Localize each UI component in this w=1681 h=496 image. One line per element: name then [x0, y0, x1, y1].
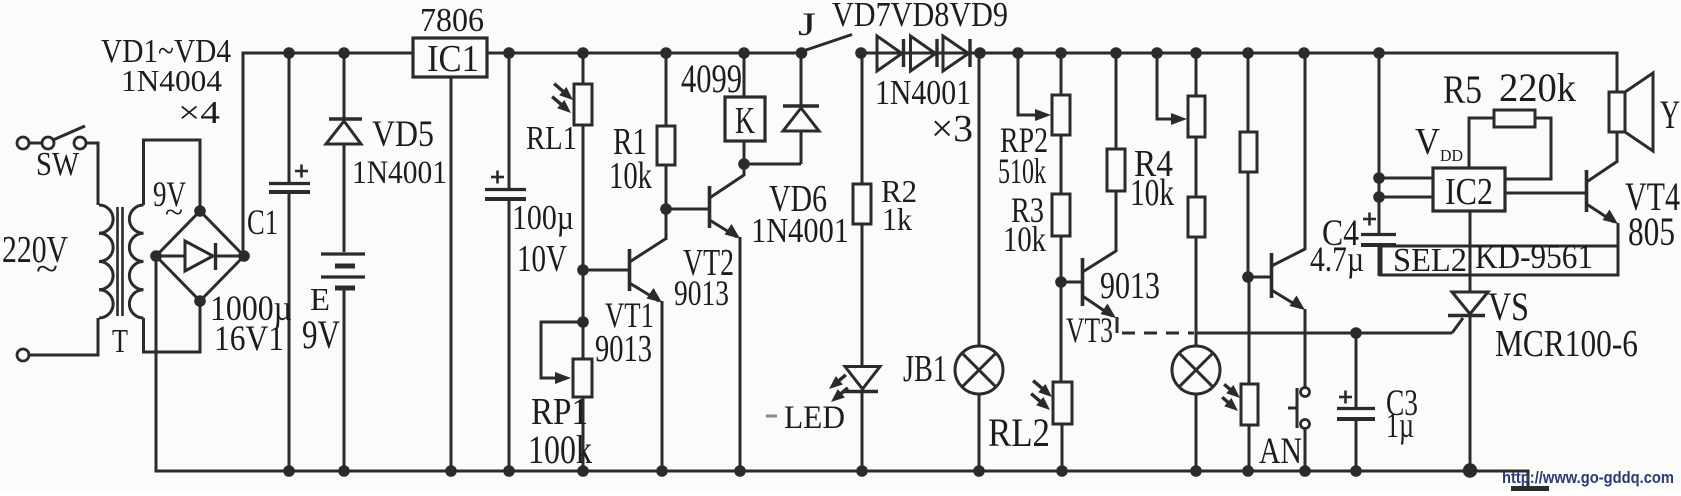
label 220V tilde: [36, 251, 58, 288]
svg-text:10k: 10k: [1003, 219, 1046, 259]
junction res3 top rail: [1242, 47, 1254, 59]
label C1: [247, 202, 278, 242]
watermark: [1502, 468, 1674, 487]
svg-text:510k: 510k: [998, 151, 1046, 191]
label R4 10k: [1130, 172, 1174, 214]
label 1k: [882, 201, 912, 237]
wire VDD drop: [1378, 53, 1381, 233]
wire C3 bottom: [1355, 419, 1358, 471]
wire R1 top: [665, 53, 668, 126]
wire RG2 bottom: [1248, 425, 1251, 471]
wire C1 top: [288, 53, 291, 182]
label VD1~VD4: [101, 33, 231, 70]
label VT4: [1625, 174, 1680, 219]
svg-text:RL2: RL2: [988, 410, 1050, 455]
junction R4 top rail: [1110, 47, 1122, 59]
thyristor VS: [1448, 292, 1488, 471]
C3 plus: [1339, 391, 1352, 404]
RL1 light arrows: [552, 84, 573, 113]
label VD6 1N4001: [751, 211, 849, 250]
transformer T primary winding: [99, 205, 113, 318]
wire K bottom to node: [743, 141, 746, 164]
switch SW lever: [53, 126, 85, 140]
label LED dash: [766, 415, 777, 418]
svg-text:~: ~: [165, 196, 183, 229]
junction cap100u top rail: [503, 47, 515, 59]
wire VT2 base: [666, 208, 709, 211]
wire R1 bottom: [665, 165, 668, 209]
capacitor 100u: [485, 190, 526, 200]
wire VT3 base node to RL2: [1060, 282, 1063, 382]
diode VD6: [783, 106, 819, 131]
top rail right segment: [861, 52, 1617, 55]
speaker Y cone: [1625, 73, 1653, 151]
label VS: [1488, 284, 1529, 329]
wire res2 to lamp2: [1195, 237, 1198, 346]
bridge node left: [150, 250, 162, 262]
label RL1: [526, 120, 577, 157]
cap 100u plus: [491, 171, 504, 184]
junction K top rail: [738, 47, 750, 59]
LED light arrows: [829, 375, 848, 402]
label 9V secondary: [153, 174, 186, 214]
junction VD9 out rail: [974, 47, 986, 59]
label SW: [36, 146, 80, 183]
photoresistor RL1: [574, 84, 592, 125]
switch SW terminal 2: [42, 137, 54, 149]
label T: [112, 323, 128, 360]
wire IC2 pin2: [1379, 196, 1433, 199]
bridge inner diode: [160, 241, 242, 271]
wire VD5 top: [343, 53, 346, 119]
label KD-9561: [1475, 237, 1593, 276]
junction AN bottom rail: [1299, 465, 1311, 477]
junction VDD rail: [1373, 47, 1385, 59]
switch SW terminal 1: [17, 137, 29, 149]
label SEL2: [1393, 242, 1467, 279]
label RP1: [531, 391, 588, 433]
potentiometer RP1: [573, 359, 592, 397]
junction C3 bottom rail: [1350, 465, 1362, 477]
diodes VD7 VD8 VD9: [877, 36, 970, 71]
relay K box: [725, 97, 765, 141]
svg-text:220k: 220k: [1499, 65, 1576, 110]
transistor VT3: [1083, 191, 1118, 333]
svg-text:×4: ×4: [178, 94, 220, 130]
transformer T secondary winding: [129, 205, 143, 318]
label 805: [1628, 209, 1675, 254]
wire VT1 base: [583, 269, 628, 272]
svg-text:9V: 9V: [302, 312, 340, 357]
label 100u: [512, 198, 574, 237]
photoresistor RL2: [1053, 382, 1072, 424]
wire VD5 to battery: [343, 144, 346, 252]
label LED: [784, 400, 845, 436]
bottom rail: [155, 470, 1529, 473]
photoresistor RG2: [1241, 384, 1258, 425]
svg-text:Y: Y: [1660, 92, 1680, 137]
junction pot2 top rail: [1190, 47, 1202, 59]
wire mains bottom to primary: [29, 318, 98, 355]
label R4: [1134, 143, 1173, 185]
label VDD V: [1415, 121, 1440, 163]
wire C4 bottom: [1378, 245, 1381, 276]
svg-text:T: T: [112, 323, 128, 360]
transistor VT1: [630, 209, 667, 471]
label R3 10k: [1003, 219, 1046, 259]
wire pot2 to res2: [1195, 137, 1198, 197]
wire cap 100u top: [508, 53, 511, 188]
wire RL2 bottom: [1061, 424, 1064, 471]
svg-text:VD7VD8VD9: VD7VD8VD9: [832, 0, 1008, 34]
svg-text:R5: R5: [1443, 67, 1482, 112]
svg-text:RL1: RL1: [526, 120, 577, 157]
wire RP1 bottom: [582, 397, 585, 471]
wire cap 100u bottom: [508, 199, 511, 471]
junction RL2 bottom rail: [1056, 465, 1068, 477]
label 220V: [2, 229, 68, 271]
wire res3 to base node: [1247, 172, 1250, 277]
svg-text:10k: 10k: [609, 155, 652, 197]
svg-text:DD: DD: [1440, 146, 1463, 165]
label J: [798, 7, 816, 43]
junction R1 top rail: [660, 47, 672, 59]
RL2 light arrows: [1031, 381, 1052, 410]
capacitor C1: [269, 184, 310, 193]
svg-text:1N4001: 1N4001: [875, 73, 971, 112]
label VT3: [1066, 310, 1113, 350]
potentiometer pot2: [1188, 96, 1205, 137]
C4 plus: [1363, 213, 1376, 226]
label IC2: [1445, 171, 1493, 213]
label VT1 9013: [595, 328, 652, 370]
label R5: [1443, 67, 1482, 112]
junction R1-VT1-VT2 node: [660, 203, 672, 215]
resistor R1: [657, 126, 675, 165]
capacitor C4: [1361, 235, 1396, 246]
wire LED bottom: [861, 391, 864, 471]
svg-text:JB1: JB1: [903, 348, 947, 390]
svg-text:SW: SW: [36, 146, 80, 183]
potentiometer RP2: [1052, 95, 1070, 135]
wire VT3 base: [1061, 281, 1082, 284]
label VT1: [605, 295, 654, 335]
module box SEL2 KD-9561: [1381, 246, 1618, 275]
svg-text:10k: 10k: [1130, 172, 1174, 214]
bridge node top: [194, 205, 206, 217]
junction battery bottom rail: [338, 465, 350, 477]
label C4 4.7u: [1310, 239, 1364, 279]
svg-text:100k: 100k: [528, 427, 592, 472]
transistor driver: [1272, 53, 1306, 388]
label 220k: [1499, 65, 1576, 110]
battery E: [321, 254, 365, 288]
label R3: [1011, 190, 1044, 230]
label 100k: [528, 427, 592, 472]
wire res3 top: [1247, 53, 1250, 132]
wire VD6 top: [800, 53, 803, 106]
push button AN: [1288, 388, 1310, 429]
svg-text:SEL2: SEL2: [1393, 242, 1467, 279]
wire JB1 top: [978, 53, 981, 346]
diode VD5: [326, 119, 362, 144]
svg-text:C1: C1: [247, 202, 278, 242]
junction VT3 base node: [1055, 276, 1067, 288]
RP1 wiper: [541, 322, 583, 384]
junction cap100u bottom rail: [503, 465, 515, 477]
wire mains top from switch: [29, 142, 42, 145]
svg-text:KD-9561: KD-9561: [1475, 237, 1593, 276]
junction C1 top rail: [283, 47, 295, 59]
svg-text:VT3: VT3: [1066, 310, 1113, 350]
label VD5 1N4001: [352, 155, 447, 191]
bridge node right: [238, 250, 250, 262]
ground stub: [1527, 470, 1530, 489]
ground symbol: [1511, 486, 1549, 491]
wire node to VD6: [744, 163, 801, 166]
svg-text:IC1: IC1: [427, 38, 479, 80]
wire driver base: [1248, 276, 1271, 279]
wire K top: [743, 53, 746, 97]
wire AN bottom: [1304, 428, 1307, 471]
switch J lever: [806, 35, 852, 51]
speaker Y driver: [1609, 92, 1625, 132]
wire speaker top: [1616, 52, 1619, 93]
label K: [735, 100, 755, 142]
junction C1 bottom rail: [283, 465, 295, 477]
wire battery bottom: [343, 288, 346, 471]
LED diode: [843, 367, 880, 392]
R5 left lead: [1469, 118, 1494, 168]
label x3: [931, 108, 973, 150]
C1 plus: [295, 165, 308, 178]
label 7806: [420, 2, 484, 39]
wire R4 top: [1115, 53, 1118, 149]
label C3 1u: [1386, 405, 1414, 445]
svg-text:4.7µ: 4.7µ: [1310, 239, 1364, 279]
label 9V tilde: [165, 196, 183, 229]
dashed link VT3 emitter to lamp branch: [1122, 332, 1194, 335]
capacitor C3: [1337, 409, 1375, 420]
wire RP2 top: [1060, 53, 1063, 95]
svg-text:1N4001: 1N4001: [352, 155, 447, 191]
wire pot2 top: [1195, 53, 1198, 96]
svg-text:J: J: [798, 7, 816, 43]
junction LED bottom rail: [856, 465, 868, 477]
svg-text:K: K: [735, 100, 755, 142]
junction VD5 top rail: [338, 47, 350, 59]
label VT2 9013: [674, 273, 729, 313]
svg-text:16V1: 16V1: [214, 318, 284, 358]
svg-text:9013: 9013: [1100, 265, 1160, 307]
label VD6: [769, 178, 827, 220]
label 4099: [681, 56, 742, 101]
wire IC2 pin1: [1379, 177, 1433, 180]
label Y: [1660, 92, 1680, 137]
label 16V1: [214, 318, 284, 358]
junction RP1 wiper node: [577, 316, 589, 328]
junction C3 top node: [1350, 327, 1362, 339]
label VD5: [372, 114, 434, 155]
wire secondary top to bridge: [144, 140, 201, 211]
resistor R4: [1107, 149, 1125, 191]
svg-text:1N4004: 1N4004: [121, 63, 223, 98]
wire VT4 base: [1505, 192, 1586, 195]
wire C1 bottom: [288, 192, 291, 471]
resistor R2: [853, 184, 871, 224]
svg-text:805: 805: [1628, 209, 1675, 254]
junction RP2 top rail: [1055, 47, 1067, 59]
label 10V: [517, 238, 567, 280]
label RL2: [988, 410, 1050, 455]
label E 9V: [302, 312, 340, 357]
wire secondary bottom to bridge: [144, 301, 201, 352]
RP2 wiper: [1018, 53, 1051, 121]
junction lamp2 bottom rail: [1190, 465, 1202, 477]
RG2 light arrows: [1222, 384, 1240, 411]
wire R3 to VT3 base: [1060, 236, 1063, 282]
resistor res2: [1188, 197, 1205, 237]
svg-text:100µ: 100µ: [512, 198, 574, 237]
pot2 wiper: [1157, 53, 1187, 125]
wire RL1 to RP1: [582, 125, 585, 359]
wire RP2 to R3: [1060, 135, 1063, 194]
label 510k: [998, 151, 1046, 191]
junction RL1 top rail: [577, 47, 589, 59]
label R1 10k: [609, 155, 652, 197]
transistor VT2: [710, 164, 745, 471]
wire VD6 bottom: [800, 131, 803, 164]
wire IC2 output through box: [1469, 211, 1472, 292]
junction IC2 pin1 node: [1373, 172, 1385, 184]
R5 right lead: [1505, 118, 1551, 179]
label C3: [1386, 383, 1418, 424]
wire RL1 top: [582, 53, 585, 84]
transformer T core: [118, 207, 123, 316]
wire JB1 bottom: [978, 394, 981, 471]
wire bridge minus drop: [155, 256, 158, 470]
lamp JB1: [955, 346, 1003, 394]
junction RP1 bottom rail: [577, 465, 589, 477]
switch J right terminal: [855, 47, 867, 59]
label IC1: [427, 38, 479, 80]
wire base node to photoresistor: [1248, 277, 1251, 384]
wire IC1 ground: [450, 77, 453, 471]
label C4: [1322, 213, 1359, 254]
svg-text:×3: ×3: [931, 108, 973, 150]
switch SW terminal 3: [74, 137, 86, 149]
svg-text:1k: 1k: [882, 201, 912, 237]
junction driver collector rail: [1298, 47, 1310, 59]
junction JB1 bottom rail: [973, 465, 985, 477]
transistor VT4: [1587, 132, 1619, 276]
svg-text:9013: 9013: [595, 328, 652, 370]
svg-text:7806: 7806: [420, 2, 484, 39]
svg-text:9013: 9013: [674, 273, 729, 313]
wire lamp2 bottom: [1195, 394, 1198, 471]
svg-text:MCR100-6: MCR100-6: [1495, 323, 1638, 365]
music IC2 box: [1433, 168, 1505, 211]
junction RG2 bottom rail: [1242, 465, 1254, 477]
wire bridge plus riser: [242, 55, 245, 257]
junction VS cathode rail: [1463, 463, 1477, 477]
wire R2 to LED: [861, 224, 864, 366]
svg-text:LED: LED: [784, 400, 845, 436]
label R1: [613, 121, 647, 163]
svg-text:V: V: [1415, 121, 1440, 163]
resistor R3: [1052, 194, 1070, 236]
bridge node bottom: [194, 295, 206, 307]
svg-text:~: ~: [36, 251, 58, 288]
svg-text:4099: 4099: [681, 56, 742, 101]
junction VD6 top rail: [796, 47, 808, 59]
label 1000u: [210, 288, 292, 328]
svg-text:1µ: 1µ: [1386, 405, 1414, 445]
svg-text:IC2: IC2: [1445, 171, 1493, 213]
svg-text:10V: 10V: [517, 238, 567, 280]
junction K-VD6-VT2 node: [738, 158, 750, 170]
label R2: [881, 173, 917, 209]
mains bottom terminal: [17, 349, 29, 361]
label VD789 1N4001: [875, 73, 971, 112]
label JB1: [903, 348, 947, 390]
regulator IC1 box: [413, 38, 487, 77]
resistor res3: [1240, 132, 1257, 172]
top rail mid segment: [486, 52, 803, 55]
junction IC2 pin2 node: [1373, 191, 1385, 203]
label VT3 9013: [1100, 265, 1160, 307]
svg-text:http://www.go-gddq.com: http://www.go-gddq.com: [1502, 468, 1674, 487]
junction RP2 wiper rail: [1012, 47, 1024, 59]
label AN: [1259, 431, 1302, 472]
bridge rectifier VD1~VD4 diamond: [156, 211, 244, 301]
lamp HL2: [1172, 346, 1220, 394]
wire thyristor gate net: [1196, 332, 1452, 335]
wire C3 top: [1355, 333, 1358, 407]
label VDD sub: [1440, 146, 1463, 165]
svg-text:1N4001: 1N4001: [751, 211, 849, 250]
junction VT1 base node: [577, 264, 589, 276]
label RP2: [1000, 120, 1048, 160]
junction driver base node: [1242, 271, 1254, 283]
junction IC1 ground rail: [445, 465, 457, 477]
junction pot2 wiper rail: [1151, 47, 1163, 59]
junction VT1 emitter rail: [656, 465, 668, 477]
top rail left segment: [242, 52, 415, 55]
label x4: [178, 94, 220, 130]
label VT2: [683, 242, 734, 284]
label MCR100-6: [1495, 323, 1638, 365]
wire R2 top: [861, 53, 864, 184]
label E: [310, 281, 330, 317]
label VD7VD8VD9: [832, 0, 1008, 34]
label 1N4004: [121, 63, 223, 98]
wire switch to transformer primary top: [86, 143, 98, 205]
junction VT2 emitter rail: [734, 465, 746, 477]
resistor R5: [1494, 110, 1535, 127]
svg-text:AN: AN: [1259, 431, 1302, 472]
svg-text:VD5: VD5: [372, 114, 434, 155]
